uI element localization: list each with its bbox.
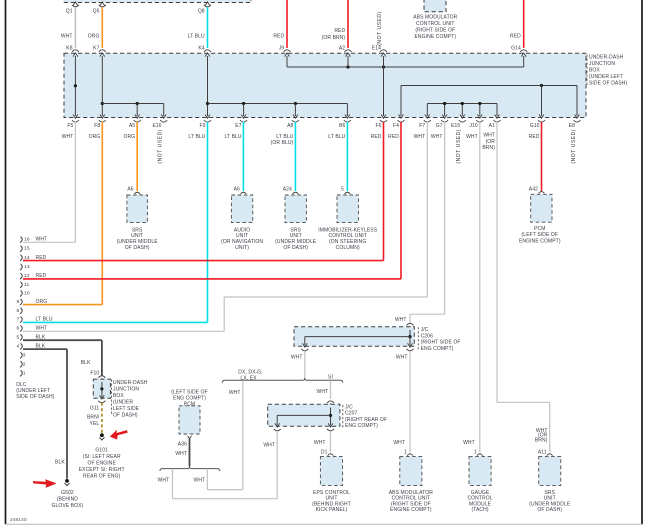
svg-text:A2: A2 <box>339 45 345 51</box>
svg-text:RED: RED <box>371 134 382 140</box>
svg-text:A5: A5 <box>129 123 135 129</box>
svg-text:WHT: WHT <box>396 354 408 360</box>
svg-text:WHT: WHT <box>463 440 475 446</box>
svg-text:JUNCTION: JUNCTION <box>589 61 615 67</box>
svg-text:15: 15 <box>24 246 30 252</box>
svg-text:ORG: ORG <box>123 134 135 140</box>
svg-text:CONTROL UNIT: CONTROL UNIT <box>416 21 455 27</box>
svg-text:OF DASH): OF DASH) <box>283 245 308 251</box>
svg-text:PCM: PCM <box>534 226 545 232</box>
svg-text:7: 7 <box>17 317 20 323</box>
svg-text:ENGINE COMPT): ENGINE COMPT) <box>390 507 432 513</box>
svg-text:UNDER-DASH: UNDER-DASH <box>589 54 624 60</box>
svg-text:E14: E14 <box>372 45 381 51</box>
svg-text:G11: G11 <box>90 406 99 412</box>
svg-text:ORG: ORG <box>89 134 101 140</box>
svg-text:E15: E15 <box>451 123 460 129</box>
svg-text:SIDE OF DASH): SIDE OF DASH) <box>16 394 54 400</box>
svg-text:BLK: BLK <box>55 460 65 466</box>
svg-text:G101: G101 <box>95 447 108 453</box>
svg-text:ENG COMPT): ENG COMPT) <box>345 423 378 429</box>
svg-text:248140: 248140 <box>10 517 27 523</box>
svg-text:WHT: WHT <box>61 34 73 40</box>
svg-text:JUNCTION: JUNCTION <box>113 386 139 392</box>
svg-text:(OR BRN): (OR BRN) <box>322 35 346 41</box>
svg-text:WHT: WHT <box>194 478 206 484</box>
svg-text:3: 3 <box>23 352 26 358</box>
svg-text:A24: A24 <box>283 187 292 193</box>
svg-text:13: 13 <box>24 264 30 270</box>
svg-text:J/C: J/C <box>421 327 429 333</box>
svg-text:COLUMN): COLUMN) <box>336 245 360 251</box>
svg-text:REAR OF ENG): REAR OF ENG) <box>83 473 121 479</box>
svg-text:F7: F7 <box>419 123 425 129</box>
svg-text:4: 4 <box>17 343 20 349</box>
svg-text:WHT: WHT <box>395 317 407 323</box>
svg-text:KICK PANEL): KICK PANEL) <box>316 507 348 513</box>
svg-text:K4: K4 <box>198 45 204 51</box>
svg-text:WHT: WHT <box>291 354 303 360</box>
svg-text:10: 10 <box>24 290 30 296</box>
svg-text:OF DASH): OF DASH) <box>537 507 562 513</box>
svg-text:5: 5 <box>341 187 344 193</box>
svg-text:(NOT USED): (NOT USED) <box>377 11 383 46</box>
svg-text:(SI: LEFT REAR: (SI: LEFT REAR <box>83 454 121 460</box>
svg-text:16: 16 <box>24 237 30 243</box>
svg-text:8: 8 <box>17 308 20 314</box>
svg-text:RED: RED <box>388 134 399 140</box>
svg-text:Q1: Q1 <box>66 8 73 14</box>
svg-text:LT BLU: LT BLU <box>188 134 205 140</box>
svg-text:B6: B6 <box>339 123 345 129</box>
svg-text:SIDE OF DASH): SIDE OF DASH) <box>589 81 627 87</box>
svg-text:WHT: WHT <box>36 237 48 243</box>
svg-text:A11: A11 <box>538 449 547 455</box>
svg-text:(NOT USED): (NOT USED) <box>571 129 577 164</box>
svg-text:WHT: WHT <box>393 440 405 446</box>
svg-text:C206: C206 <box>421 333 433 339</box>
svg-text:BLK: BLK <box>81 360 91 366</box>
svg-text:UNDER-DASH: UNDER-DASH <box>113 380 148 386</box>
svg-text:BRN): BRN) <box>535 438 548 444</box>
svg-text:F6: F6 <box>375 123 381 129</box>
svg-text:(OR BLU): (OR BLU) <box>271 140 294 146</box>
svg-text:(NOT USED): (NOT USED) <box>456 129 462 164</box>
svg-text:A8: A8 <box>287 123 293 129</box>
svg-text:(UNDER LEFT: (UNDER LEFT <box>589 74 623 80</box>
svg-text:OF ENGINE: OF ENGINE <box>87 460 116 466</box>
svg-text:(BEHIND: (BEHIND <box>57 497 79 503</box>
svg-text:J9: J9 <box>279 45 285 51</box>
svg-text:G14: G14 <box>511 45 521 51</box>
svg-text:A1: A1 <box>489 123 495 129</box>
svg-text:(RIGHT SIDE OF: (RIGHT SIDE OF <box>415 27 455 33</box>
svg-text:G7: G7 <box>436 123 443 129</box>
svg-text:Q5: Q5 <box>93 8 100 14</box>
svg-text:EXCEPT SI: RIGHT: EXCEPT SI: RIGHT <box>79 467 125 473</box>
svg-text:6: 6 <box>17 325 20 331</box>
svg-text:WHT: WHT <box>466 134 478 140</box>
svg-text:BOX: BOX <box>113 393 124 399</box>
svg-text:K8: K8 <box>66 45 72 51</box>
svg-text:E16: E16 <box>152 123 161 129</box>
svg-text:Q8: Q8 <box>198 8 205 14</box>
svg-text:F10: F10 <box>90 371 99 377</box>
svg-text:ENGINE COMPT): ENGINE COMPT) <box>519 238 561 244</box>
svg-text:OF DASH): OF DASH) <box>125 245 150 251</box>
svg-text:YEL: YEL <box>90 421 100 427</box>
svg-text:(TACH): (TACH) <box>471 507 488 513</box>
svg-text:BRN): BRN) <box>482 145 495 151</box>
svg-text:(OR: (OR <box>486 139 496 145</box>
svg-text:LT BLU: LT BLU <box>188 34 205 40</box>
svg-text:BRN/: BRN/ <box>87 414 100 420</box>
svg-text:WHT: WHT <box>229 390 241 396</box>
svg-text:1: 1 <box>474 449 477 455</box>
svg-text:E8: E8 <box>569 123 575 129</box>
svg-text:5: 5 <box>17 334 20 340</box>
svg-text:1: 1 <box>404 449 407 455</box>
svg-text:WHT: WHT <box>314 440 326 446</box>
svg-text:WHT: WHT <box>431 134 443 140</box>
svg-text:RED: RED <box>334 28 345 34</box>
svg-text:11: 11 <box>24 282 29 288</box>
svg-text:RED: RED <box>510 34 521 40</box>
svg-text:WHT: WHT <box>62 134 74 140</box>
svg-text:D1: D1 <box>321 449 328 455</box>
svg-text:BOX: BOX <box>589 67 600 73</box>
svg-text:F5: F5 <box>67 123 73 129</box>
svg-text:RED: RED <box>273 34 284 40</box>
svg-text:WHT: WHT <box>175 451 187 457</box>
svg-text:J/C: J/C <box>345 404 353 410</box>
svg-text:WHT: WHT <box>36 325 48 331</box>
svg-text:9: 9 <box>17 299 20 305</box>
svg-text:(LEFT SIDE OF: (LEFT SIDE OF <box>522 232 559 238</box>
svg-text:F4: F4 <box>393 123 399 129</box>
svg-text:A6: A6 <box>234 187 240 193</box>
svg-text:WHT: WHT <box>263 442 275 448</box>
svg-text:WHT: WHT <box>158 478 170 484</box>
svg-text:(RIGHT SIDE OF: (RIGHT SIDE OF <box>421 340 461 346</box>
svg-text:WHT: WHT <box>483 133 495 139</box>
svg-text:F8: F8 <box>94 123 100 129</box>
svg-text:C207: C207 <box>345 411 357 417</box>
svg-text:LEFT SIDE: LEFT SIDE <box>113 406 140 412</box>
svg-text:A6: A6 <box>127 187 133 193</box>
svg-text:LT BLU: LT BLU <box>328 134 345 140</box>
svg-text:ABS MODULATOR: ABS MODULATOR <box>413 15 457 21</box>
svg-text:ENGINE COMPT): ENGINE COMPT) <box>415 34 457 40</box>
svg-text:(UNDER: (UNDER <box>113 399 133 405</box>
svg-text:ORG: ORG <box>88 34 100 40</box>
svg-text:LT BLU: LT BLU <box>225 134 242 140</box>
svg-text:G502: G502 <box>61 490 74 496</box>
svg-text:A42: A42 <box>529 187 538 193</box>
svg-text:WHT: WHT <box>414 134 426 140</box>
svg-text:F9: F9 <box>199 123 205 129</box>
svg-text:J10: J10 <box>469 123 477 129</box>
svg-text:OF DASH): OF DASH) <box>113 412 138 418</box>
svg-text:SI: SI <box>328 375 333 381</box>
svg-text:1: 1 <box>23 370 26 376</box>
svg-text:ENG COMPT): ENG COMPT) <box>421 346 454 352</box>
svg-text:E7: E7 <box>235 123 241 129</box>
svg-text:UNIT): UNIT) <box>235 245 249 251</box>
svg-text:2: 2 <box>23 361 26 367</box>
svg-text:(NOT USED): (NOT USED) <box>158 129 164 164</box>
svg-text:K7: K7 <box>93 45 99 51</box>
svg-text:(RIGHT REAR OF: (RIGHT REAR OF <box>345 417 387 423</box>
svg-text:WHT: WHT <box>317 389 329 395</box>
svg-text:GLOVE BOX): GLOVE BOX) <box>51 503 83 509</box>
svg-text:G10: G10 <box>530 123 540 129</box>
svg-text:RED: RED <box>529 134 540 140</box>
svg-text:A36: A36 <box>178 441 187 447</box>
